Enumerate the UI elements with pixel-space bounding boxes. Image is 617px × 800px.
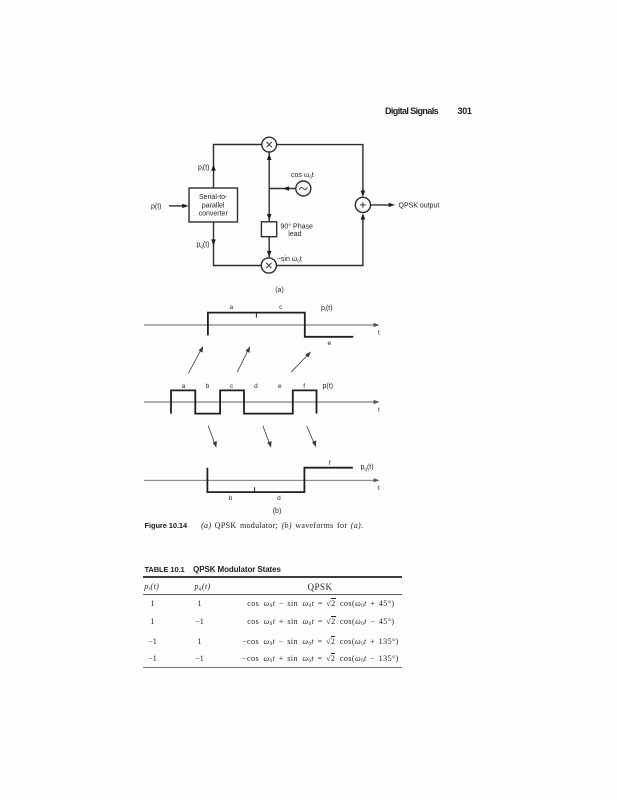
multiplier M2 (x) [261,258,276,273]
down arrow 1 [208,426,217,448]
svg-text:p(t): p(t) [151,203,162,210]
svg-text:lead: lead [288,231,301,238]
down arrow 2 [263,426,272,448]
up arrow 3 [291,352,311,373]
waveform pQ trace [207,468,352,492]
multiplier M1 (x) [262,137,277,152]
oscillator source circle [296,181,311,196]
wire summer output [371,203,396,207]
svg-text:t: t [378,407,380,414]
svg-text:−sin ω0t: −sin ω0t [277,256,302,264]
table row 4 [146,654,159,663]
arrow up on p_i wire [211,164,216,170]
waveform p trace [171,390,317,413]
table title [145,565,281,574]
up arrow 1 [188,346,203,374]
svg-text:f: f [303,383,305,390]
svg-text:f: f [329,460,331,467]
svg-text:(b): (b) [273,508,282,515]
svg-text:(a): (a) [275,287,284,294]
waveform p axis [144,400,380,404]
table bottom rule [143,667,402,669]
running head: Digital Signals 301 [385,106,438,116]
svg-text:pi(t): pi(t) [198,164,210,172]
figure caption [145,521,364,530]
svg-text:parallel: parallel [202,202,225,209]
up arrow 2 [237,346,250,372]
svg-text:pq(t): pq(t) [361,464,374,472]
converter box label [199,194,229,218]
down arrow 3 [307,426,317,447]
waveform pI trace [208,313,353,337]
svg-text:a: a [229,304,233,311]
waveform pQ axis [144,478,380,482]
svg-text:pi(t): pi(t) [321,305,333,313]
wire converter top to multiplier M1 [214,145,262,189]
svg-text:d: d [277,495,281,502]
summer (+) [355,197,370,212]
svg-text:pq(t): pq(t) [196,242,209,250]
svg-text:cos ω0t: cos ω0t [291,172,314,180]
svg-text:c: c [230,383,234,390]
table header QPSK [303,582,337,592]
serial-to-parallel converter box U1 [189,188,238,222]
svg-text:t: t [378,330,380,337]
wire phase box to multiplier M2 [267,237,272,258]
svg-text:t: t [378,485,380,492]
svg-text:b: b [229,495,233,502]
wire converter bottom to M2 [211,222,261,266]
svg-text:converter: converter [199,211,229,218]
svg-text:d: d [254,383,258,390]
svg-text:c: c [279,304,283,311]
table header p_i(t) [144,582,159,591]
svg-text:e: e [278,383,282,390]
table row 1 [146,599,159,608]
svg-text:90° Phase: 90° Phase [281,222,313,230]
table header rule [143,594,402,595]
table top rule [143,576,402,578]
wire M2 to summer bottom [276,213,365,265]
wire M1 bottom to phase-lead box [267,152,272,222]
phase lead label [281,222,313,238]
svg-text:a: a [182,383,186,390]
svg-text:e: e [327,340,331,347]
90 degree phase lead box [261,222,276,237]
table row 3 [146,637,159,646]
wire p(t) to converter [169,204,189,208]
wire oscillator to junction [269,186,296,190]
wire M1 to summer top [277,145,366,197]
table header p_q(t) [195,582,211,591]
table row 2 [146,617,159,626]
svg-text:Serial-to-: Serial-to- [199,194,228,201]
waveform pI axis [144,323,380,327]
svg-text:p(t): p(t) [323,383,334,390]
svg-text:b: b [206,383,210,390]
svg-text:QPSK output: QPSK output [399,202,440,209]
